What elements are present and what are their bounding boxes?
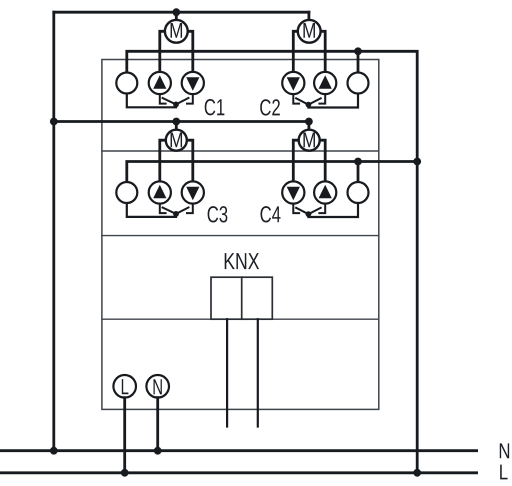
changeover contact C3	[160, 204, 193, 214]
wire: C2 common riser	[357, 51, 360, 72]
label C1	[205, 99, 225, 115]
changeover contact C1	[160, 94, 193, 104]
wire: KNX bus +	[226, 319, 228, 426]
wire: stub M4	[307, 122, 310, 130]
wire: top N feed line	[54, 11, 309, 14]
wire: C4 common riser	[357, 162, 360, 183]
terminal down C2	[282, 72, 304, 94]
wire: M3 left to C3 up terminal	[160, 140, 165, 182]
terminal up C4	[314, 181, 336, 203]
KNX terminal block	[211, 277, 272, 319]
divider above KNX	[102, 235, 379, 237]
label L rail	[500, 465, 507, 480]
wire: row2 feed line	[54, 120, 309, 123]
divider below KNX	[102, 318, 379, 320]
wire: C4 common to contact	[308, 203, 358, 217]
terminal common C2	[348, 73, 369, 94]
wire: stub M1	[175, 12, 178, 20]
divider row1/row2	[102, 150, 379, 152]
wire: M1 right to C1 down terminal	[188, 31, 193, 72]
wire: right bus (L) with row1 common	[127, 51, 417, 473]
junction N wire / N rail	[154, 447, 162, 455]
L rail	[0, 471, 477, 474]
terminal common C3	[116, 182, 137, 203]
wire: N terminal down	[156, 398, 159, 451]
wire: left bus (N)	[52, 12, 55, 451]
contact dot C2	[306, 102, 312, 108]
changeover contact C2	[293, 94, 325, 105]
junction row2 feed / M3	[172, 118, 180, 126]
label C2	[260, 99, 280, 115]
contact dot C3	[173, 211, 179, 217]
label C3	[208, 206, 228, 222]
changeover contact C4	[293, 204, 325, 215]
terminal up C1	[149, 72, 171, 94]
junction row2 feed / M4	[305, 118, 313, 126]
terminal N	[146, 375, 169, 398]
label C4	[260, 206, 280, 222]
motor M3	[166, 130, 187, 151]
terminal down C1	[182, 72, 204, 94]
terminal up C3	[149, 181, 171, 203]
contact dot C1	[173, 102, 179, 108]
junction row2 common / right bus	[413, 158, 421, 166]
wire: C2 common to contact	[308, 94, 358, 108]
terminal L	[113, 375, 136, 398]
junction right bus / L rail	[413, 469, 421, 477]
label N rail	[500, 443, 509, 458]
wire: KNX bus -	[257, 319, 259, 426]
wire: M2 right to C2 up terminal	[321, 31, 326, 72]
label KNX	[225, 253, 259, 269]
motor M1	[165, 20, 188, 43]
wire: M1 left to C1 up terminal	[160, 31, 165, 72]
junction top line / M1	[172, 8, 180, 16]
motor M4	[299, 130, 320, 151]
terminal down C4	[282, 181, 304, 203]
device outline	[102, 60, 379, 410]
wire: row2 common	[127, 162, 417, 183]
wire: C1 common to contact	[127, 94, 176, 108]
wire: M4 right to C4 up terminal	[321, 140, 326, 182]
wire: L terminal down	[123, 398, 126, 473]
junction L wire / L rail	[121, 469, 129, 477]
contact dot C4	[306, 211, 312, 217]
wire: stub M2	[307, 12, 310, 20]
terminal down C3	[182, 181, 204, 203]
wire: M2 left to C2 down terminal	[293, 31, 298, 72]
terminal common C4	[348, 182, 369, 203]
wire: M3 right to C3 down terminal	[188, 140, 193, 182]
junction row1 common / C2 riser	[354, 47, 362, 55]
junction row2 common / C4 riser	[354, 158, 362, 166]
junction left bus / N rail	[50, 447, 58, 455]
wire: C3 common to contact	[127, 203, 176, 217]
wire: stub M3	[175, 122, 178, 130]
motor M2	[298, 20, 321, 43]
wire: M4 left to C4 down terminal	[293, 140, 298, 182]
N rail	[0, 449, 477, 452]
terminal common C1	[116, 73, 137, 94]
junction left bus / row2 feed	[50, 118, 58, 126]
terminal up C2	[314, 72, 336, 94]
